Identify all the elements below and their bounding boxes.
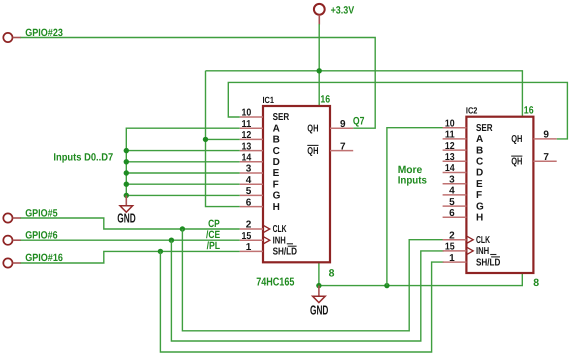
wire inputs manifold vertical to GND [126,128,240,196]
wire IC2 SER to GND bus [387,128,444,286]
svg-text:4: 4 [246,175,252,186]
svg-text:13: 13 [445,152,455,163]
wire VCC feeder to inputs B and H [206,71,240,207]
svg-text:QH: QH [307,146,318,157]
svg-text:/PL: /PL [207,240,221,252]
svg-text:16: 16 [524,104,534,116]
wire GPIO#16 to /PL/SHLD [21,251,240,263]
wire branch to input B [206,138,240,140]
wire branch input G [126,194,240,196]
svg-text:H: H [273,202,280,213]
svg-text:1: 1 [246,242,252,253]
svg-text:H: H [476,213,483,224]
junction input G [124,193,129,198]
wire GPIO#23 to IC1 QH (Q7 net) [21,38,376,129]
svg-text:+3.3V: +3.3V [331,5,355,17]
IC2 INH trailing overline [490,254,496,256]
svg-text:F: F [476,190,482,201]
junction input F [124,182,129,187]
svg-text:SH/LD: SH/LD [273,247,297,258]
svg-text:QH: QH [511,134,522,145]
IC1 pin names [273,112,319,257]
IC2 pin stubs right [533,139,556,161]
svg-text:B: B [476,145,483,156]
svg-text:F: F [273,179,279,190]
junction input E [124,170,129,175]
svg-text:E: E [273,168,280,179]
ground symbol under IC1 [313,286,326,303]
wire IC1 SER from IC2 QH (cascade) [228,82,567,138]
svg-text:11: 11 [242,119,252,130]
wire GPIO#6 to /CE/INH [21,239,240,241]
svg-text:6: 6 [449,208,455,219]
svg-text:74HC165: 74HC165 [256,276,295,288]
IC1 pin numbers right [340,119,346,152]
svg-text:3: 3 [246,164,252,175]
svg-text:2: 2 [246,220,252,231]
svg-text:C: C [273,146,280,157]
svg-text:5: 5 [449,197,455,208]
IC1 pin numbers left [242,108,252,253]
svg-text:GND: GND [117,211,135,226]
wire branch input E [126,172,240,174]
terminal GPIO#6 [3,236,21,245]
wire INH bus to IC2 [171,240,444,341]
op IC2 74HC165 body [466,117,533,273]
wire +3.3V down to IC1 pin16 [318,24,320,106]
junction PL bus tap [158,249,163,254]
wire branch input C [126,150,240,152]
svg-text:Inputs: Inputs [398,175,427,187]
svg-text:13: 13 [242,141,252,152]
svg-text:12: 12 [242,130,252,141]
svg-text:9: 9 [340,119,346,130]
IC1 pin stubs right [330,128,353,150]
svg-text:3: 3 [449,174,455,185]
svg-text:B: B [273,135,280,146]
wire branch input F [126,183,240,185]
svg-text:CLK: CLK [273,224,288,235]
svg-text:6: 6 [246,197,252,208]
IC2 pin numbers right [543,130,549,163]
IC2 clock chevrons [466,236,473,255]
svg-text:A: A [273,123,280,134]
junction GND at IC1 pin8 [316,283,321,288]
svg-text:1: 1 [449,253,455,264]
svg-text:E: E [476,179,483,190]
IC2 SH/LD overline [491,256,500,258]
svg-text:SH/LD: SH/LD [476,257,500,268]
IC1 INH trailing overline [287,243,293,245]
svg-text:16: 16 [320,94,330,106]
svg-text:9: 9 [543,130,549,141]
junction VCC at IC1 pin16 riser [317,68,322,73]
terminal GPIO#16 [3,258,21,267]
op IC1 74HC165 body [263,106,330,262]
junction input D [124,159,129,164]
svg-text:11: 11 [445,130,455,141]
junction CP bus tap [180,226,185,231]
svg-text:14: 14 [242,153,252,164]
svg-text:Inputs D0..D7: Inputs D0..D7 [53,152,113,164]
svg-text:INH: INH [273,235,286,246]
ground symbol under inputs [120,195,133,212]
svg-text:INH: INH [476,246,489,257]
svg-text:8: 8 [329,267,335,279]
svg-text:G: G [273,191,281,202]
svg-text:GND: GND [310,303,328,318]
IC2 pin names [476,123,522,268]
wire VCC bus to IC2 pin16 [206,71,523,117]
svg-text:8: 8 [533,277,539,289]
junction GND at IC2 SER riser [384,283,389,288]
wire SHLD bus to IC2 [160,251,444,352]
wire CLK bus to IC2 [182,229,444,331]
svg-text:CLK: CLK [476,235,491,246]
svg-text:A: A [476,134,483,145]
wire GPIO#5 to CP/CLK [21,218,240,229]
svg-text:C: C [476,157,483,168]
IC1 pin stubs left [240,117,263,251]
svg-text:15: 15 [445,242,455,253]
svg-text:7: 7 [340,141,346,152]
junction at input B branch [203,137,208,142]
terminal GPIO#23 [3,33,21,42]
svg-text:IC2: IC2 [466,106,478,116]
wire GND bus IC1 pin8 to IC2 pin8 [319,262,522,285]
svg-text:14: 14 [445,163,455,174]
svg-text:10: 10 [445,118,455,129]
label More Inputs [398,164,427,187]
svg-text:D: D [476,168,483,179]
svg-text:G: G [476,201,484,212]
svg-text:QH: QH [511,157,522,168]
wire branch input D [126,161,240,163]
svg-text:SER: SER [476,123,493,134]
power +3.3V terminal [314,4,325,25]
IC2 pin stubs left [443,128,467,262]
IC1 clock chevrons [263,225,270,244]
svg-text:QH: QH [307,123,318,134]
IC2 QHbar overline [511,155,522,157]
svg-text:2: 2 [449,230,455,241]
IC1 QHbar overline [307,144,318,146]
junction input C [124,148,129,153]
svg-text:Q7: Q7 [353,116,365,128]
svg-text:D: D [273,157,280,168]
svg-text:12: 12 [445,141,455,152]
svg-text:5: 5 [246,186,252,197]
IC1 SH/LD overline [288,245,297,247]
svg-text:7: 7 [543,152,549,163]
IC2 pin numbers left [445,118,455,263]
svg-text:15: 15 [242,231,252,242]
terminal GPIO#5 [3,213,21,222]
svg-text:4: 4 [449,186,455,197]
junction CE bus tap [169,238,174,243]
svg-text:IC1: IC1 [263,95,275,105]
svg-text:10: 10 [242,108,252,119]
svg-text:SER: SER [273,112,290,123]
